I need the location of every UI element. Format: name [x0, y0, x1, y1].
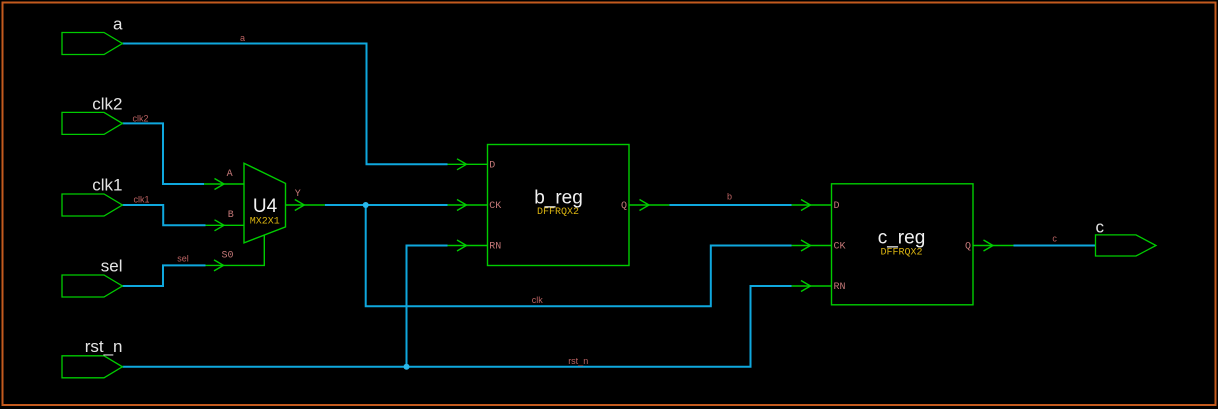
- svg-text:B: B: [228, 210, 234, 221]
- svg-text:S0: S0: [222, 250, 234, 261]
- svg-text:RN: RN: [834, 282, 846, 293]
- svg-text:sel: sel: [177, 254, 189, 264]
- svg-text:CK: CK: [489, 201, 501, 212]
- svg-text:clk: clk: [532, 295, 543, 305]
- svg-text:DFFRQX2: DFFRQX2: [880, 248, 922, 259]
- svg-text:clk2: clk2: [92, 94, 122, 113]
- svg-text:c_reg: c_reg: [878, 227, 926, 248]
- svg-text:sel: sel: [101, 256, 123, 275]
- svg-text:clk1: clk1: [133, 194, 149, 204]
- svg-text:MX2X1: MX2X1: [250, 216, 280, 227]
- svg-text:a: a: [240, 33, 245, 43]
- svg-text:Y: Y: [295, 189, 301, 200]
- svg-text:A: A: [227, 169, 233, 180]
- svg-text:c: c: [1096, 217, 1105, 236]
- svg-text:DFFRQX2: DFFRQX2: [537, 207, 579, 218]
- svg-text:rst_n: rst_n: [85, 337, 123, 356]
- svg-text:D: D: [834, 201, 840, 212]
- svg-text:clk1: clk1: [92, 176, 122, 195]
- svg-text:CK: CK: [834, 242, 846, 253]
- svg-text:U4: U4: [253, 196, 278, 217]
- svg-text:b: b: [727, 191, 732, 201]
- svg-text:a: a: [113, 15, 123, 34]
- svg-text:clk2: clk2: [132, 113, 148, 123]
- svg-text:Q: Q: [621, 201, 627, 212]
- svg-text:rst_n: rst_n: [568, 356, 588, 366]
- svg-text:D: D: [489, 160, 495, 171]
- svg-text:c: c: [1052, 233, 1057, 243]
- svg-text:RN: RN: [489, 242, 501, 253]
- svg-text:Q: Q: [965, 242, 971, 253]
- svg-text:b_reg: b_reg: [534, 187, 583, 208]
